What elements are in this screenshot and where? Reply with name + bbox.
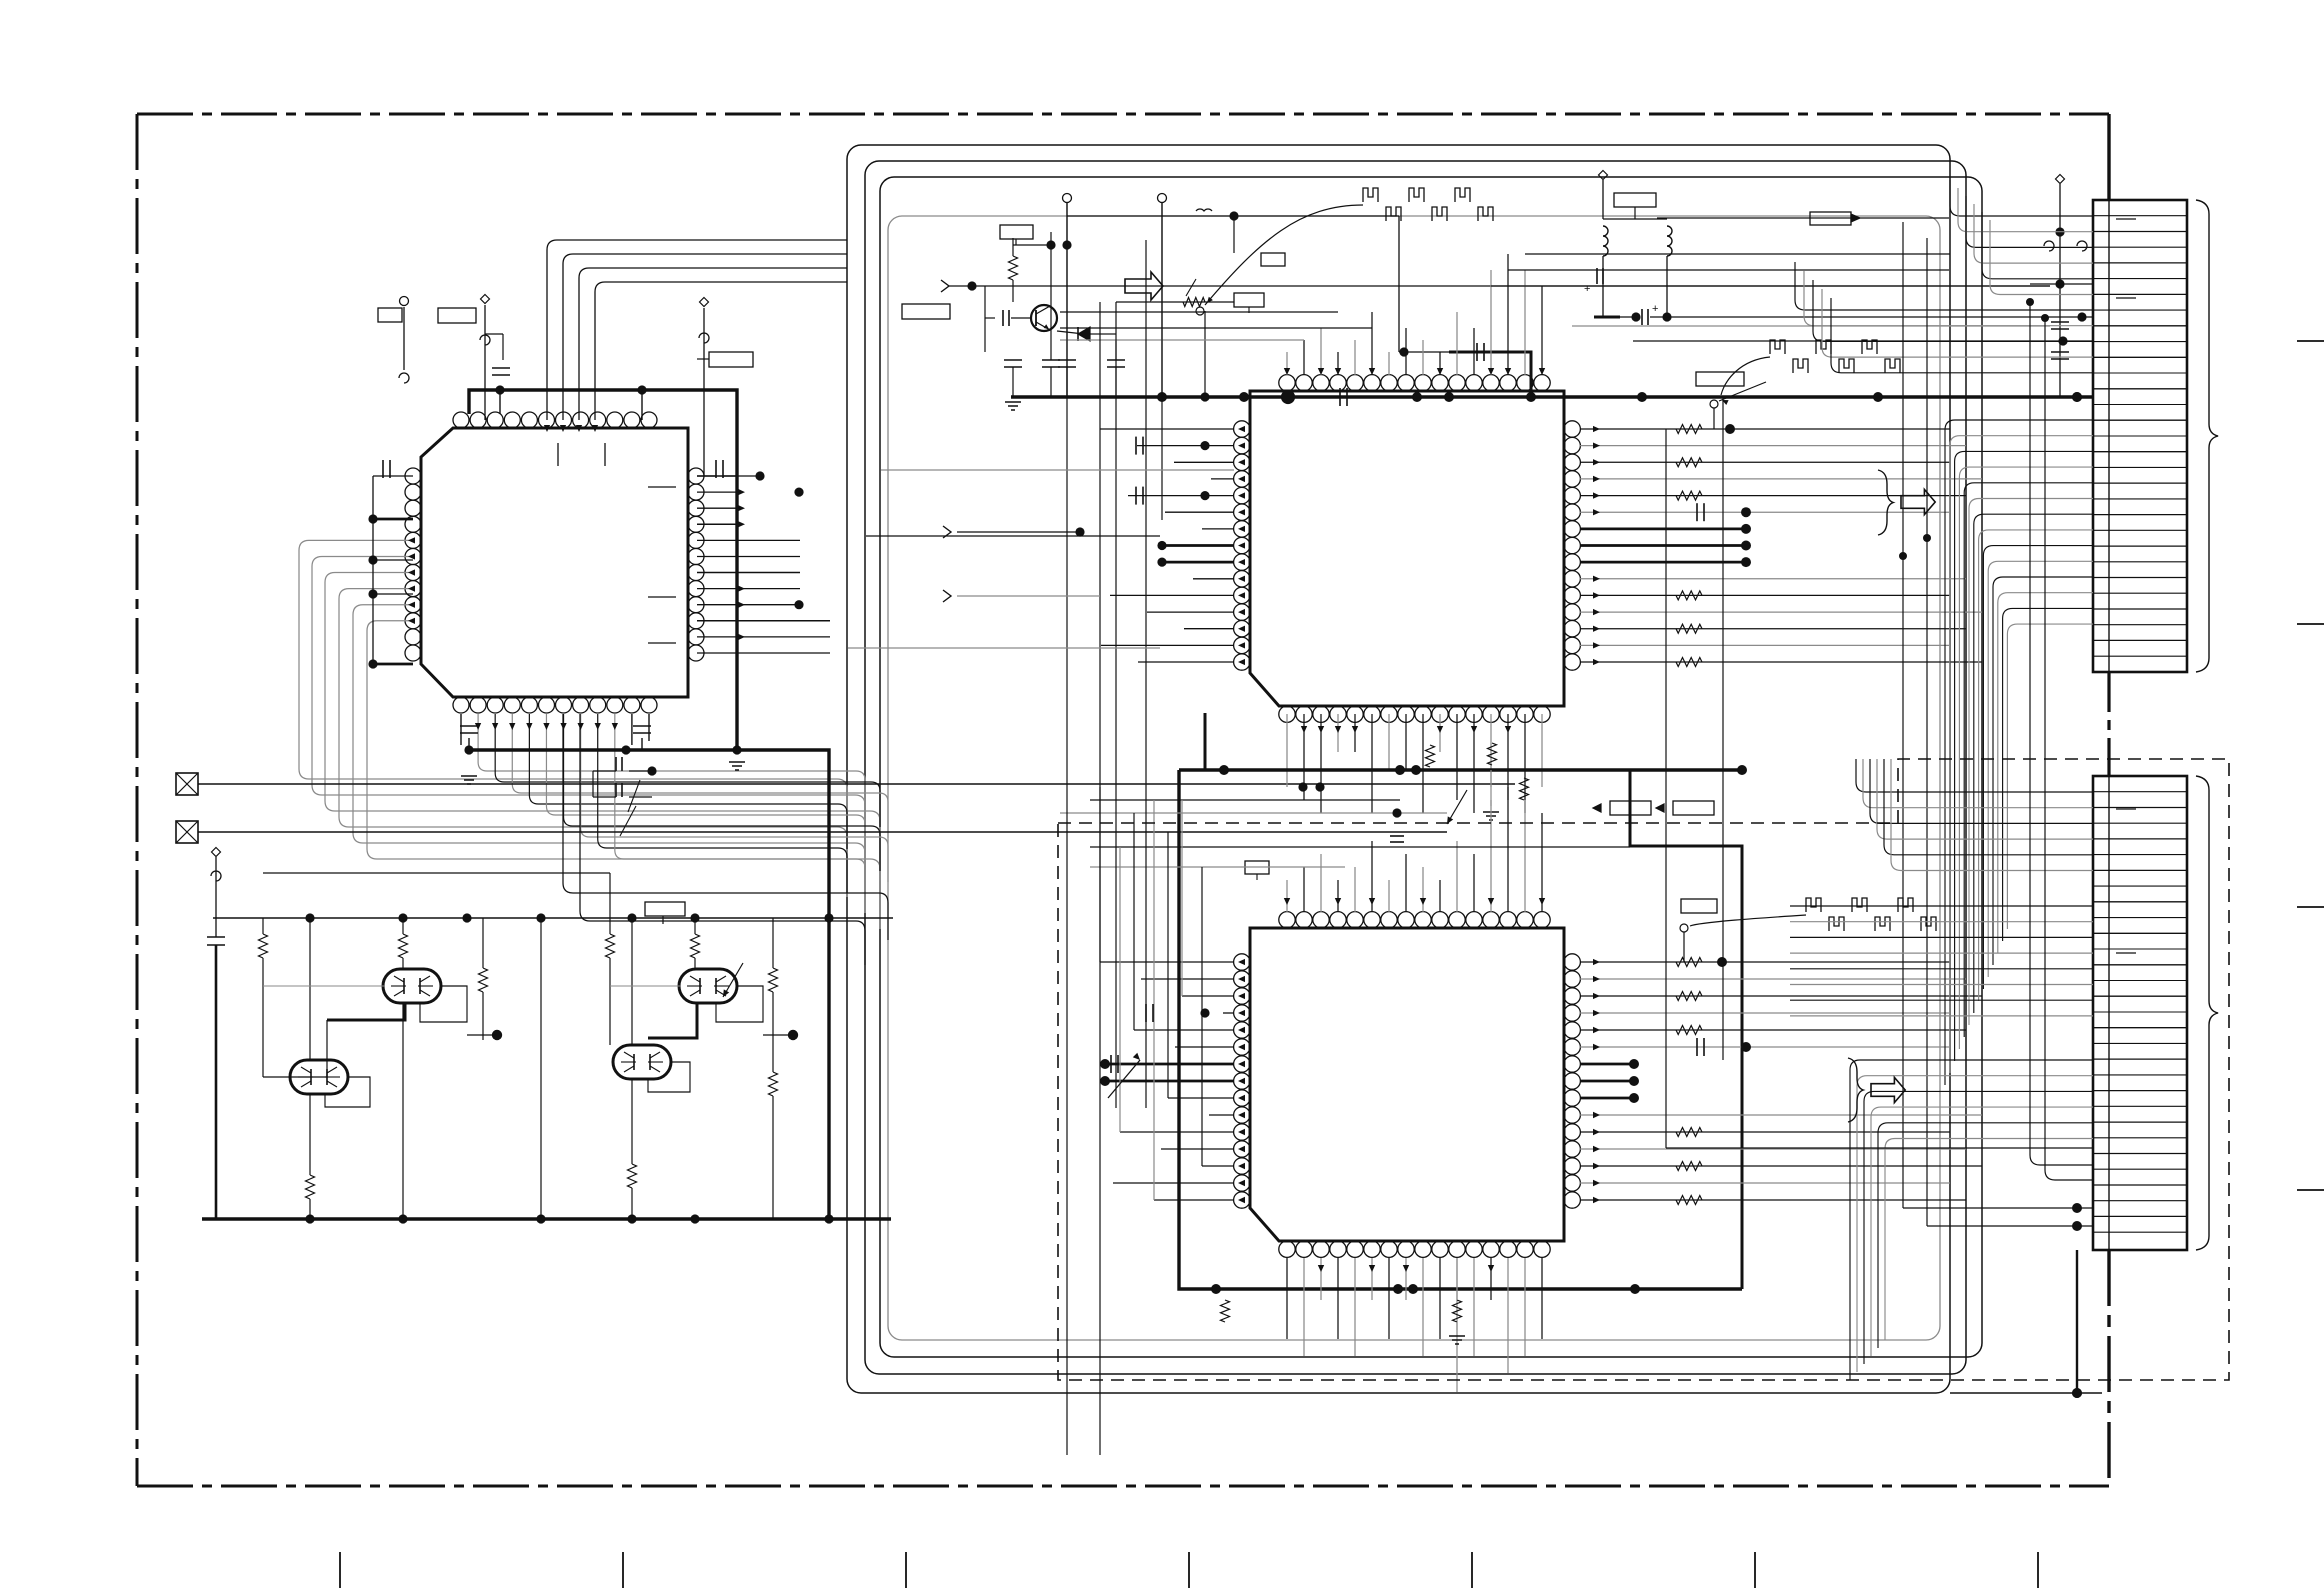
svg-text:+: + [1584,283,1590,295]
svg-text:+: + [1652,303,1658,315]
